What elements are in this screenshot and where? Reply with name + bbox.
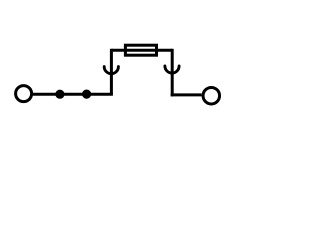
wire: top horizontal bridge through fuse — [111, 49, 172, 52]
disconnect contact cup right (fuse clip) — [165, 66, 179, 73]
junction dot 1 (contact point on feed-through conductor) — [55, 90, 64, 99]
fuse F1 (rectangle body over conductor) — [125, 45, 156, 55]
wire: bottom-right horizontal segment to right terminal — [171, 93, 202, 96]
terminal circle left (screw connection point) — [16, 86, 32, 102]
wire: right vertical riser down from fuse bridge — [171, 49, 174, 97]
terminal circle right (screw connection point) — [203, 87, 220, 104]
disconnect contact cup left (fuse clip) — [104, 67, 118, 74]
wire: bottom-left horizontal segment from left terminal to left riser — [33, 93, 113, 96]
junction dot 2 (contact point on feed-through conductor) — [82, 90, 91, 99]
wire: left vertical riser up to fuse bridge — [110, 49, 113, 94]
